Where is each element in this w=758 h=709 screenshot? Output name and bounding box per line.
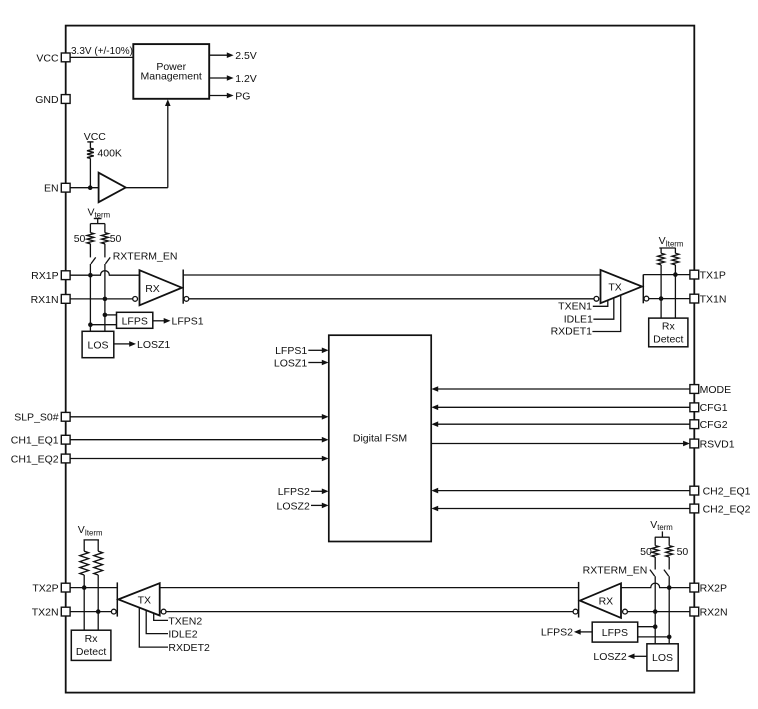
svg-text:Detect: Detect [76, 646, 106, 658]
node TX1N termination junction [659, 296, 664, 301]
svg-text:TX1N: TX1N [700, 294, 727, 306]
pin RSVD1 [690, 438, 735, 450]
node RX2P termination junction [667, 585, 672, 590]
wire channel2 positive (RX2 to TX2) [160, 587, 579, 589]
wire CH2_EQ2 pin to FSM [431, 506, 690, 512]
node RX1P termination junction [88, 273, 93, 278]
svg-text:RXDET2: RXDET2 [168, 642, 210, 654]
resistor termination TX2 right [94, 551, 103, 575]
svg-text:RX1N: RX1N [31, 294, 59, 306]
bubble RX2 inverted output [573, 609, 578, 614]
svg-text:VCC: VCC [36, 52, 59, 64]
svg-text:LOSZ2: LOSZ2 [277, 500, 310, 512]
wire TX2P to pin [70, 587, 117, 589]
wire LOSZ1 into FSM [274, 357, 329, 369]
svg-text:2.5V: 2.5V [235, 50, 257, 62]
wire RX1P pin to receiver (hops over term line) [70, 271, 139, 276]
pin RX2N [690, 607, 728, 619]
svg-text:TX: TX [138, 594, 151, 606]
pin VCC [36, 52, 70, 64]
svg-text:IDLE1: IDLE1 [564, 314, 593, 326]
receiver RX2 [580, 583, 621, 618]
svg-text:CH1_EQ1: CH1_EQ1 [11, 435, 59, 447]
wire RX1 term right vertical [104, 264, 106, 315]
value label 50 (left) [74, 233, 86, 245]
svg-text:IDLE2: IDLE2 [168, 629, 197, 641]
svg-text:TXEN1: TXEN1 [558, 301, 592, 313]
wire RX2N pin to receiver [627, 611, 690, 613]
block LFPS detector ch2 [592, 622, 638, 642]
wire RX1 term left vertical [89, 264, 91, 325]
bubble TX2 inverted output [111, 609, 116, 614]
node LFPS1 tap N [88, 322, 93, 327]
wire LOSZ2 output [593, 651, 646, 663]
svg-text:TX2N: TX2N [32, 607, 59, 619]
wire RX2 term right vertical [668, 576, 670, 637]
svg-text:50: 50 [74, 233, 86, 245]
svg-text:RX: RX [145, 283, 160, 295]
svg-text:50: 50 [110, 233, 122, 245]
pin CFG1 [690, 402, 728, 414]
control RXDET2 [139, 608, 210, 654]
svg-text:CFG2: CFG2 [700, 419, 728, 431]
wire RX2P pin to receiver (hops over term line) [621, 583, 690, 588]
net label 3.3V (+/-10%) [71, 46, 133, 57]
switch RXTERM_EN RX1 left [90, 244, 95, 264]
svg-text:Rx: Rx [662, 321, 676, 333]
bubble RX1 inverting input [133, 297, 138, 302]
svg-text:MODE: MODE [700, 384, 732, 396]
wire LFPS2 output [541, 627, 592, 639]
node LFPS2 tap P [653, 624, 658, 629]
svg-text:RX: RX [599, 595, 614, 607]
wire TX1P to pin [643, 274, 690, 276]
wire term lines into LOS1 detector [90, 315, 105, 331]
control IDLE1 [564, 298, 614, 326]
device outer boundary box [66, 26, 695, 693]
value label 50 (ch2 right) [677, 546, 689, 558]
switch RXTERM_EN RX2 right [664, 557, 669, 576]
pin SLP_S0# [14, 412, 70, 424]
wire EN pin to buffer [70, 187, 99, 189]
switch RXTERM_EN RX2 left [650, 557, 655, 576]
node LFPS1 tap P [103, 313, 108, 318]
node TX1P termination junction [673, 272, 678, 277]
node TX2N termination junction [96, 609, 101, 614]
svg-text:CH2_EQ2: CH2_EQ2 [703, 503, 751, 515]
bubble TX2 inverting input [161, 609, 166, 614]
svg-text:LOSZ2: LOSZ2 [593, 651, 626, 663]
buffer U2 enable [99, 173, 126, 203]
output 2.5V [209, 50, 257, 62]
svg-text:EN: EN [44, 183, 59, 195]
VCC pull-up rail label [84, 131, 107, 143]
svg-text:LFPS1: LFPS1 [172, 316, 204, 328]
label RXTERM_EN (RX1) [113, 251, 178, 263]
RX1 output bar [182, 270, 184, 304]
svg-text:CH1_EQ2: CH1_EQ2 [11, 453, 59, 465]
wire CH1_EQ2 pin to FSM [70, 456, 329, 462]
switch RXTERM_EN RX1 right [105, 244, 110, 264]
svg-text:RXDET1: RXDET1 [551, 326, 593, 338]
svg-text:RX2P: RX2P [700, 583, 727, 595]
node RX1N termination junction [103, 297, 108, 302]
pin GND [35, 94, 70, 106]
pin EN [44, 183, 70, 195]
bubble TX1 inverted output [644, 296, 649, 301]
wire channel1 negative (RX1 to TX1) [189, 298, 594, 300]
label RXTERM_EN (RX2) [583, 564, 648, 576]
wire SLP_S0# pin to FSM [70, 414, 329, 420]
resistor 50 ohm RX1 right [102, 233, 109, 244]
wire TX1 term verticals to Rx Detect [661, 265, 675, 318]
svg-text:Detect: Detect [653, 334, 683, 346]
wire term lines to LFPS1 detector [90, 315, 116, 325]
svg-text:RXTERM_EN: RXTERM_EN [113, 251, 178, 263]
wire LOSZ1 output [114, 339, 171, 351]
svg-text:LFPS2: LFPS2 [541, 627, 573, 639]
wire TX1N to pin [649, 298, 690, 300]
svg-text:SLP_S0#: SLP_S0# [14, 412, 59, 424]
pin TX1N [690, 294, 727, 306]
wire channel1 positive (RX1 to TX1) [183, 274, 600, 276]
VCC rail bar [87, 142, 93, 148]
pin RX1N [31, 294, 71, 306]
wire LFPS2 into FSM [278, 486, 329, 498]
svg-text:TXEN2: TXEN2 [168, 615, 202, 627]
svg-text:RXTERM_EN: RXTERM_EN [583, 564, 648, 576]
wire channel2 negative (RX2 to TX2) [166, 611, 573, 613]
supply VIterm (TX1) [659, 235, 684, 248]
value label 50 (ch2 left) [640, 546, 652, 558]
pin TX2P [32, 583, 70, 595]
wire buffer output to Power Management [126, 105, 168, 188]
power management block U1 [133, 44, 209, 99]
wire RX2 term left vertical [654, 576, 656, 627]
node TX2P termination junction [82, 585, 87, 590]
TX1 output bar [642, 275, 644, 304]
wire Vterm to resistors RX1 [90, 224, 105, 233]
control TXEN2 [154, 613, 203, 627]
output 1.2V [209, 73, 257, 85]
value label 50 (right) [110, 233, 122, 245]
bubble RX1 inverted output [184, 297, 189, 302]
block Digital FSM [329, 335, 431, 541]
svg-text:LOS: LOS [87, 339, 108, 351]
svg-text:LFPS: LFPS [602, 627, 628, 639]
svg-text:CFG1: CFG1 [700, 402, 728, 414]
svg-text:LFPS1: LFPS1 [275, 345, 307, 357]
svg-text:LOSZ1: LOSZ1 [137, 339, 170, 351]
wire VCC 3.3V supply to Power Management [70, 56, 133, 58]
svg-text:RX2N: RX2N [700, 607, 728, 619]
wire Vterm to resistors RX2 [655, 537, 669, 545]
svg-text:LFPS: LFPS [122, 315, 148, 327]
output PG [209, 90, 250, 102]
svg-text:GND: GND [35, 94, 59, 106]
resistor 400K pull-up [87, 147, 122, 159]
block LOS detector ch1 [82, 331, 114, 357]
wire TX2N to pin [70, 611, 111, 613]
wire LOSZ2 into FSM [277, 500, 329, 512]
TX2 output bar [116, 582, 118, 616]
svg-text:Management: Management [141, 71, 202, 83]
pin RX2P [690, 583, 727, 595]
wire pull-up to EN node [89, 158, 91, 187]
svg-text:Digital FSM: Digital FSM [353, 433, 407, 445]
svg-text:50: 50 [677, 546, 689, 558]
pin CH1_EQ2 [11, 453, 70, 465]
svg-text:50: 50 [640, 546, 652, 558]
svg-text:PG: PG [235, 90, 250, 102]
svg-text:VCC: VCC [84, 131, 107, 143]
resistor 50 ohm RX1 left [87, 233, 94, 244]
wire FSM to RSVD1 pin [431, 441, 690, 447]
control TXEN1 [558, 300, 608, 313]
wire CH2_EQ1 pin to FSM [431, 488, 690, 494]
control IDLE2 [146, 610, 198, 640]
driver TX1 [601, 270, 643, 303]
svg-text:CH2_EQ1: CH2_EQ1 [703, 486, 751, 498]
wire RX1N pin to receiver [70, 298, 133, 300]
receiver RX1 [140, 270, 182, 305]
wire LFPS1 output [153, 316, 204, 328]
control RXDET1 [551, 295, 621, 337]
supply Vterm (RX2) [650, 519, 673, 537]
node RX2N termination junction [653, 609, 658, 614]
svg-text:RX1P: RX1P [31, 270, 58, 282]
node EN junction [88, 185, 93, 190]
pin CH2_EQ1 [690, 486, 751, 498]
pin TX2N [32, 607, 70, 619]
pin CH2_EQ2 [690, 503, 751, 515]
bubble TX1 inverting input [594, 296, 599, 301]
wire VIterm to resistors TX1 [661, 248, 675, 253]
pin TX1P [690, 270, 726, 282]
resistor 50 ohm RX2 right [666, 546, 673, 557]
pin CFG2 [690, 419, 728, 431]
wire CFG2 pin to FSM [431, 421, 690, 427]
block LFPS detector ch1 [117, 312, 153, 328]
svg-text:400K: 400K [97, 147, 122, 159]
svg-text:LOS: LOS [652, 652, 673, 664]
resistor termination TX1 left [658, 253, 665, 265]
pin CH1_EQ1 [11, 435, 70, 447]
block LOS detector ch2 [647, 644, 678, 671]
supply VIterm (TX2) [78, 524, 103, 540]
RX2 output bar [578, 582, 580, 618]
block Rx Detect ch1 [649, 318, 688, 347]
driver TX2 [118, 583, 159, 615]
svg-text:LOSZ1: LOSZ1 [274, 357, 307, 369]
wire VIterm to resistors TX2 [84, 540, 98, 551]
pin MODE [690, 384, 731, 396]
svg-text:TX: TX [608, 281, 621, 293]
svg-text:TX2P: TX2P [32, 583, 58, 595]
svg-text:1.2V: 1.2V [235, 73, 257, 85]
bubble RX2 inverting input [623, 609, 628, 614]
wire term lines into LOS2 detector [655, 627, 669, 644]
resistor termination TX1 right [672, 253, 679, 265]
wire LFPS1 into FSM [275, 345, 329, 357]
svg-text:3.3V (+/-10%): 3.3V (+/-10%) [71, 46, 133, 57]
arrow into Power Management [165, 99, 171, 106]
resistor 50 ohm RX2 left [652, 546, 659, 557]
resistor termination TX2 left [80, 551, 89, 575]
wire term lines to LFPS2 detector [638, 627, 670, 637]
wire CFG1 pin to FSM [431, 405, 690, 411]
wire CH1_EQ1 pin to FSM [70, 437, 329, 443]
svg-text:RSVD1: RSVD1 [700, 438, 735, 450]
wire TX2 term verticals to Rx Detect [84, 575, 98, 630]
supply Vterm (RX1) [88, 207, 111, 224]
block Rx Detect ch2 [71, 630, 111, 660]
wire MODE pin to FSM [431, 386, 690, 392]
svg-text:Rx: Rx [85, 633, 99, 645]
svg-text:TX1P: TX1P [700, 270, 726, 282]
svg-text:LFPS2: LFPS2 [278, 486, 310, 498]
node LFPS2 tap N [667, 635, 672, 640]
pin RX1P [31, 270, 70, 282]
